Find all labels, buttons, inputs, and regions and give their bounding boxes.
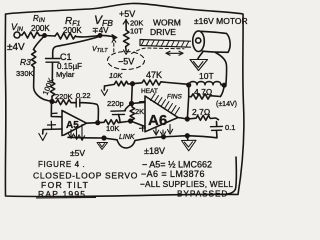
op-amp A5 [48, 111, 87, 136]
svg-text:FINS: FINS [167, 94, 182, 101]
wire R3 bottom to node A [34, 68, 52, 102]
VTILT arrowhead [112, 39, 116, 42]
svg-text:A5: A5 [66, 120, 79, 131]
wire junction to RF1 [45, 35, 56, 38]
svg-text:2K: 2K [135, 107, 144, 116]
pot bottom lead with down arrow [124, 47, 129, 55]
svg-text:RIN: RIN [33, 14, 45, 24]
svg-text:−ALL SUPPLIES, WELL: −ALL SUPPLIES, WELL [140, 179, 233, 189]
underline RAP 1995 [36, 197, 96, 200]
node rail-A5 [102, 136, 106, 140]
A6 supply arrows ±18V [154, 125, 173, 137]
resistor 10K (A5 out to A6 +) [98, 120, 130, 125]
wire node A down to A5 inverting input [51, 102, 62, 117]
resistor 2.7 ohm (Zobel) [187, 116, 218, 121]
svg-text:VTILT: VTILT [92, 46, 108, 54]
wire C1 bottom to 100K [51, 62, 53, 82]
svg-text:200K: 200K [31, 24, 50, 33]
wire to A6 + input [131, 121, 146, 127]
svg-text:(±14V): (±14V) [216, 101, 237, 108]
svg-text:− A5= ½ LMC662: − A5= ½ LMC662 [142, 160, 212, 170]
svg-text:10T: 10T [130, 27, 143, 36]
resistor 4.7 ohm (parallel) [189, 85, 225, 99]
wire A6 apex to output node [178, 118, 187, 120]
node rail-A6 [162, 135, 166, 139]
resistor RF1 200K [55, 33, 75, 39]
svg-text:R3: R3 [20, 57, 31, 67]
heat fins hatching on A6 [151, 94, 180, 115]
svg-text:±5V: ±5V [70, 148, 85, 158]
A5 supply arrows ±5V [69, 125, 85, 141]
ground arrow (10K) [101, 86, 107, 96]
+5V arrow [123, 20, 128, 24]
wire motor left lead to ground [198, 52, 203, 60]
node A6 inverting input [130, 102, 134, 106]
svg-text:∓4V: ∓4V [92, 26, 109, 35]
node coil left [187, 83, 191, 87]
resistor 220K (feedback) [52, 100, 71, 105]
node A5 output [96, 121, 100, 125]
svg-text:200K: 200K [63, 26, 82, 35]
ground rail wire [68, 137, 117, 140]
worm travel double arrow [166, 51, 183, 55]
potentiometer 20K 10T [124, 30, 130, 47]
wire pot top to +5V arrow [125, 20, 127, 31]
node A6 + input [129, 119, 133, 123]
wire rail to A6 area [135, 136, 187, 141]
ground triangle (A5 area) [97, 143, 108, 150]
resistor 100K (vertical) [50, 82, 55, 96]
wire 100K to node A [51, 97, 53, 101]
svg-text:±16V MOTOR: ±16V MOTOR [194, 16, 248, 26]
wire A5 output [87, 122, 98, 125]
wire A5 + input to ground arrow [43, 129, 62, 134]
wire motor right lead down to coil [216, 53, 227, 85]
svg-text:±18V: ±18V [144, 146, 165, 156]
motor ±16V [193, 31, 230, 52]
wire RF1 to VFB node [76, 36, 100, 37]
svg-text:±4V: ±4V [7, 42, 25, 53]
resistor 10K to ground (A6 - input) [105, 81, 133, 86]
wire junction to R3 [34, 36, 45, 50]
mechanical link dashed (wiper to worm) [114, 39, 184, 54]
svg-text:220K: 220K [55, 92, 73, 101]
ground triangle (output) [182, 134, 197, 151]
border frame [5, 3, 244, 196]
svg-text:4.7Ω: 4.7Ω [194, 87, 212, 97]
wire LINK jumper [117, 140, 135, 148]
svg-text:LINK: LINK [119, 134, 135, 141]
wire VIN to RIN [20, 34, 22, 36]
svg-text:CLOSED-LOOP SERVO: CLOSED-LOOP SERVO [33, 171, 138, 181]
wire RIN to junction [40, 35, 45, 37]
wire C1 top lead from VFB node [53, 37, 99, 58]
node VFB [98, 34, 101, 37]
svg-text:10T: 10T [199, 71, 214, 81]
node A (A5 inverting input node) [50, 100, 54, 104]
svg-text:10K: 10K [106, 124, 119, 133]
wire 4.7 node down to A6 output [187, 97, 188, 119]
capacitor 220p [111, 104, 132, 122]
svg-text:10K: 10K [109, 71, 123, 80]
node feedback junction [131, 82, 135, 86]
resistor R3 330K (vertical) [32, 50, 36, 68]
node VIN terminal [14, 32, 20, 38]
wire VFB node to pot wiper arrow [100, 35, 117, 40]
svg-text:A6: A6 [148, 112, 167, 129]
svg-text:WORM: WORM [153, 18, 181, 28]
node A6 output [186, 117, 190, 121]
worm drive shaft [140, 40, 191, 48]
resistor 47K (A6 feedback) [133, 80, 189, 85]
op-amp A6 [140, 96, 179, 132]
capacitor 0.1 (Zobel) [187, 122, 222, 138]
svg-text:0.22: 0.22 [76, 91, 91, 100]
capacitor C1 0.15uF Mylar [46, 59, 61, 63]
dashed oval around -5V [108, 52, 145, 70]
resistor 2K (across A6 inputs) [130, 104, 135, 122]
svg-text:BYPASSED: BYPASSED [177, 189, 228, 199]
svg-text:DRIVE: DRIVE [150, 27, 176, 37]
svg-text:VIN: VIN [11, 22, 24, 33]
inductor 10T [189, 82, 224, 85]
svg-text:0.1: 0.1 [225, 123, 235, 132]
svg-text:FIGURE 4 .: FIGURE 4 . [38, 160, 85, 169]
wire A6 - node up to feedback node [131, 84, 134, 104]
svg-text:Mylar: Mylar [56, 70, 75, 79]
svg-text:+5V: +5V [119, 9, 135, 19]
resistor RIN 200K [22, 32, 40, 38]
svg-text:−A6 = LM3876: −A6 = LM3876 [141, 169, 205, 179]
ground triangle (motor) [190, 60, 208, 71]
svg-text:−5V: −5V [118, 57, 134, 67]
svg-text:2.7Ω: 2.7Ω [192, 107, 210, 117]
svg-text:HEAT: HEAT [141, 88, 158, 95]
svg-text:C1: C1 [60, 52, 72, 62]
ground arrow (A5 + input) [39, 133, 47, 141]
node coil right [222, 83, 226, 87]
wire 0.22 to A5 output node [83, 103, 98, 121]
wire A6 - input [132, 102, 146, 103]
svg-text:47K: 47K [146, 70, 162, 80]
svg-text:220p: 220p [107, 99, 124, 108]
capacitor 0.22 (feedback, series) [72, 99, 83, 108]
svg-text:330K: 330K [16, 69, 34, 78]
node summing junction [43, 34, 46, 37]
